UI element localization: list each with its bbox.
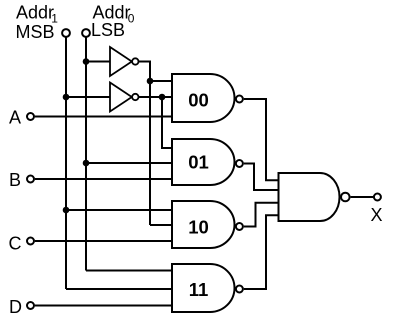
- wire inverter U2 output to gate00 middle input: [139, 96, 173, 98]
- svg-text:LSB: LSB: [91, 20, 125, 40]
- nand-gate 01 bubble: [236, 160, 243, 167]
- wire Addr1 to gate10 top input: [66, 209, 173, 211]
- terminal A: [27, 113, 34, 120]
- svg-text:D: D: [9, 297, 22, 317]
- svg-text:Addr: Addr: [16, 3, 54, 23]
- wire final gate output to X: [351, 196, 374, 198]
- wire gate11 output to final gate input 4: [244, 215, 279, 289]
- wire gate01 output to final gate input 2: [244, 164, 279, 191]
- svg-text:11: 11: [189, 279, 209, 300]
- wire inverter U1 input: [86, 61, 110, 63]
- junction Addr0 to gate01 middle input: [83, 160, 90, 167]
- terminal X: [374, 194, 381, 201]
- wire inverter U2 input: [66, 96, 110, 98]
- terminal D: [27, 302, 34, 309]
- wire A to gate00 bottom input: [35, 116, 173, 118]
- svg-text:10: 10: [188, 217, 209, 238]
- wire Addr1 to gate11 middle input: [66, 288, 173, 290]
- svg-text:A: A: [9, 107, 21, 127]
- nand-gate 11 body: [172, 264, 235, 312]
- wire C to gate10 bottom input: [35, 240, 173, 242]
- wire gate00 output to final gate input 1: [244, 99, 279, 180]
- wire NOT-Addr0 to gate10 middle input: [150, 224, 173, 226]
- svg-text:B: B: [9, 170, 21, 190]
- terminal Addr1: [62, 29, 70, 37]
- wire Addr1 rail vertical: [65, 37, 67, 289]
- terminal B: [27, 176, 34, 183]
- wire Addr0 rail vertical: [85, 37, 87, 270]
- wire NOT-Addr1 rail to gate01 top input: [162, 97, 173, 148]
- inverter U2 bubble: [132, 94, 138, 100]
- svg-text:C: C: [9, 234, 22, 254]
- wire B to gate01 bottom input: [35, 178, 173, 180]
- junction Addr1 to inverter U2 input: [63, 94, 70, 101]
- nand-gate 00 bubble: [236, 96, 243, 103]
- wire NOT-Addr0 to gate00 top input: [150, 80, 173, 82]
- wire gate10 output to final gate input 3: [244, 203, 279, 227]
- junction Addr0 to inverter U1 input: [83, 58, 90, 65]
- nand-gate 00 body: [172, 74, 235, 122]
- wire inverter U1 output to NOT-Addr0 rail: [139, 62, 150, 226]
- nand-gate U3 final body: [279, 173, 340, 221]
- svg-text:X: X: [371, 205, 383, 225]
- nand-gate 10 bubble: [236, 223, 243, 230]
- junction NOT-Addr1 branch: [159, 94, 166, 101]
- wire Addr0 to gate01 middle input: [86, 162, 173, 164]
- terminal Addr0: [82, 29, 90, 37]
- junction Addr1 to gate10 top input: [63, 207, 70, 214]
- svg-text:01: 01: [188, 151, 209, 172]
- svg-text:00: 00: [188, 89, 209, 110]
- svg-text:MSB: MSB: [16, 22, 55, 42]
- inverter U2 (NOT Addr1): [110, 83, 132, 112]
- nand-gate 01 body: [172, 139, 234, 185]
- inverter U1 (NOT Addr0): [110, 47, 132, 76]
- svg-text:0: 0: [128, 12, 135, 26]
- wire Addr0 to gate11 top input: [86, 270, 173, 272]
- nand-gate U3 bubble: [341, 193, 350, 202]
- nand-gate 10 body: [172, 201, 235, 248]
- wire D to gate11 bottom input: [35, 305, 173, 307]
- junction NOT-Addr0 to gate00 top input: [147, 78, 154, 85]
- inverter U1 bubble: [132, 58, 138, 64]
- terminal C: [27, 238, 34, 245]
- nand-gate 11 bubble: [236, 286, 243, 293]
